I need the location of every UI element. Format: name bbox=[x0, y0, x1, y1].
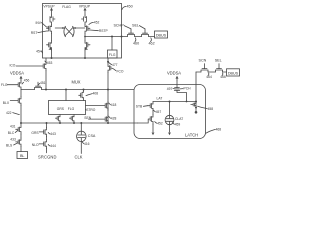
transistor N2b bbox=[85, 41, 90, 50]
wire box U2 top tap bbox=[65, 89, 67, 101]
svg-text:FLG: FLG bbox=[68, 107, 75, 111]
node BL terminal box bbox=[17, 147, 28, 159]
label 464 leader bbox=[206, 73, 212, 79]
svg-text:STB: STB bbox=[136, 104, 143, 108]
wire blc-bls bbox=[20, 134, 22, 138]
label 466 leader bbox=[220, 73, 226, 79]
label 456 leader bbox=[22, 79, 29, 84]
svg-text:ICO: ICO bbox=[10, 64, 16, 68]
wire right branch mid bbox=[84, 34, 86, 41]
label INV input bbox=[36, 21, 49, 27]
label LATCH bbox=[185, 133, 198, 138]
ground arrow left bbox=[152, 124, 155, 135]
svg-text:FLG: FLG bbox=[1, 83, 8, 87]
transistor SEL right bbox=[216, 64, 223, 72]
label 422 leader bbox=[6, 111, 19, 115]
wire ICO to mux bus bbox=[45, 71, 47, 91]
svg-text:CSA: CSA bbox=[88, 134, 96, 138]
node FLG terminal box bbox=[108, 37, 118, 59]
svg-text:SCN: SCN bbox=[199, 58, 207, 62]
svg-text:INV: INV bbox=[36, 21, 42, 25]
transistor U2a bbox=[56, 115, 62, 125]
label CSA bbox=[88, 134, 96, 138]
label BLS gate bbox=[6, 143, 18, 148]
transistor BLC bbox=[16, 123, 21, 134]
label 431 leader bbox=[10, 125, 16, 129]
svg-text:459: 459 bbox=[175, 122, 181, 126]
svg-text:464: 464 bbox=[206, 75, 212, 79]
transistor SCN bbox=[201, 64, 208, 72]
svg-text:RSTP: RSTP bbox=[99, 29, 109, 33]
wire mux bus bbox=[21, 89, 134, 91]
label 408 leader bbox=[86, 91, 98, 95]
wire stb to n2 bbox=[152, 111, 154, 115]
svg-text:PCH: PCH bbox=[184, 87, 192, 91]
svg-text:VPSUP: VPSUP bbox=[79, 4, 91, 8]
wire sen bus bbox=[21, 122, 138, 124]
label 454 leader bbox=[36, 50, 42, 54]
wire grs-nlo bbox=[46, 137, 48, 140]
transistor N1a bbox=[47, 24, 52, 33]
svg-text:SEL: SEL bbox=[215, 58, 222, 62]
svg-text:CLK: CLK bbox=[75, 154, 83, 159]
label 468 leader bbox=[206, 128, 221, 134]
transistor SEL top bbox=[142, 29, 149, 37]
svg-text:456: 456 bbox=[24, 79, 30, 83]
label 444 leader bbox=[48, 144, 56, 148]
svg-text:BLS: BLS bbox=[6, 143, 13, 147]
label 457 leader bbox=[154, 110, 162, 114]
wire left branch mid bbox=[51, 34, 53, 41]
wire DBUS top bbox=[122, 36, 155, 38]
svg-text:SEN: SEN bbox=[84, 116, 91, 120]
label STB bbox=[136, 104, 148, 108]
svg-text:462: 462 bbox=[149, 42, 155, 46]
wire LAT node bbox=[153, 101, 197, 103]
supply VPSUP left bbox=[43, 4, 55, 15]
label SCHP bbox=[113, 23, 131, 29]
transistor U2b bbox=[70, 115, 76, 125]
transistor 451 on bus bbox=[35, 82, 42, 89]
mux select box U2 bbox=[49, 101, 86, 115]
latch box U3 bbox=[134, 85, 206, 139]
svg-text:GRS: GRS bbox=[57, 107, 65, 111]
svg-text:LATCH: LATCH bbox=[185, 133, 198, 138]
label SEL top bbox=[132, 23, 145, 29]
svg-text:444: 444 bbox=[50, 144, 56, 148]
cross coupling bowtie bbox=[55, 26, 85, 36]
label 462 leader bbox=[149, 38, 155, 46]
label CLAT bbox=[175, 117, 183, 121]
label SRCGND bbox=[38, 154, 57, 159]
transistor BLX bbox=[10, 97, 21, 106]
wire flg box drop bbox=[107, 58, 109, 64]
capacitor CLAT bbox=[165, 102, 174, 133]
transistor P2 bbox=[82, 15, 87, 24]
wire to srcgnd bbox=[46, 149, 48, 153]
svg-text:BLX: BLX bbox=[3, 101, 10, 105]
svg-text:452: 452 bbox=[94, 21, 100, 25]
svg-text:454: 454 bbox=[36, 50, 42, 54]
label CLK bbox=[75, 154, 83, 159]
svg-text:BLC: BLC bbox=[8, 131, 15, 135]
transistor N1b bbox=[47, 41, 52, 50]
svg-text:STRO: STRO bbox=[86, 108, 96, 112]
svg-text:443: 443 bbox=[50, 132, 56, 136]
label 450 box leader bbox=[122, 5, 133, 10]
label 477 leader bbox=[109, 62, 118, 67]
svg-text:416: 416 bbox=[84, 142, 90, 146]
label SEN bbox=[84, 116, 91, 120]
transistor NLO bbox=[39, 140, 47, 149]
svg-text:418: 418 bbox=[111, 103, 117, 107]
label BLX bbox=[3, 101, 10, 105]
transistor T7a bbox=[86, 102, 109, 111]
wire right branch to rail bbox=[84, 50, 86, 59]
svg-text:RST: RST bbox=[31, 31, 38, 35]
label 452 leader bbox=[89, 21, 100, 25]
label 451 leader bbox=[38, 81, 45, 85]
wire blx drop bbox=[20, 90, 22, 97]
svg-text:452: 452 bbox=[157, 121, 163, 125]
label FLG gate bbox=[1, 83, 8, 87]
label LAT bbox=[157, 97, 163, 101]
label FLAG bbox=[62, 5, 71, 9]
wire flag rail drop bbox=[45, 58, 47, 62]
transistor SCHP bbox=[128, 29, 135, 37]
label 433 leader bbox=[10, 138, 16, 142]
svg-text:428: 428 bbox=[111, 116, 117, 120]
label 460 leader bbox=[133, 38, 139, 46]
transistor latch nmos bbox=[138, 115, 154, 125]
label 459 leader bbox=[172, 122, 180, 126]
label GRS in box bbox=[57, 107, 65, 111]
label BLC gate bbox=[8, 130, 18, 135]
GRS column wire bbox=[46, 123, 48, 128]
svg-text:433: 433 bbox=[10, 138, 16, 142]
label SEL right bbox=[215, 58, 222, 62]
supply VDDSA left bbox=[10, 71, 24, 81]
label MUX bbox=[71, 80, 80, 85]
transistor P1 bbox=[50, 15, 55, 24]
wire dbus drop bbox=[195, 72, 198, 114]
node DBUS top box bbox=[155, 31, 168, 38]
transistor FLG pmos bbox=[7, 81, 21, 90]
label ICO bbox=[10, 64, 16, 68]
transistor latch right bbox=[191, 102, 196, 108]
svg-text:GRS: GRS bbox=[31, 131, 39, 135]
svg-text:431: 431 bbox=[10, 125, 16, 129]
transistor BLS bbox=[16, 138, 21, 147]
label NLO gate bbox=[32, 143, 39, 147]
label RSTP bbox=[88, 29, 108, 33]
svg-text:451: 451 bbox=[40, 81, 46, 85]
transistor ICO bbox=[16, 62, 46, 71]
svg-text:468: 468 bbox=[216, 128, 222, 132]
label 443 leader bbox=[48, 132, 56, 136]
svg-text:BL: BL bbox=[20, 154, 25, 158]
node DBUS right box bbox=[227, 69, 240, 76]
supply VDDSA right bbox=[167, 71, 181, 81]
svg-text:SEL: SEL bbox=[132, 23, 139, 27]
label PCH bbox=[180, 87, 191, 91]
wire blx to sen bus bbox=[20, 106, 22, 124]
label 418 leader bbox=[109, 103, 117, 107]
svg-text:453: 453 bbox=[47, 61, 53, 65]
svg-text:CLAT: CLAT bbox=[175, 117, 183, 121]
label 497 leader bbox=[167, 87, 175, 91]
svg-text:FCO: FCO bbox=[117, 69, 124, 73]
svg-text:VDDSA: VDDSA bbox=[10, 71, 24, 76]
label GRS gate bbox=[31, 131, 39, 135]
label RST input bbox=[31, 31, 49, 35]
svg-text:FLAG: FLAG bbox=[62, 5, 71, 9]
svg-text:457: 457 bbox=[156, 110, 162, 114]
transistor T7b bbox=[89, 115, 109, 123]
svg-text:408: 408 bbox=[93, 91, 99, 95]
label STRO bbox=[86, 108, 96, 112]
wire flag output bbox=[84, 36, 122, 38]
ground arrow right bbox=[168, 133, 171, 136]
svg-text:NLO: NLO bbox=[32, 143, 39, 147]
label 416 leader bbox=[82, 142, 89, 146]
svg-text:MUX: MUX bbox=[71, 80, 80, 85]
wire scn sel bus bbox=[196, 71, 227, 73]
svg-text:450: 450 bbox=[127, 5, 133, 9]
transistor STRO bbox=[79, 89, 85, 101]
label FLG in box bbox=[68, 107, 75, 111]
svg-text:VDDSA: VDDSA bbox=[167, 71, 181, 76]
transistor N2a bbox=[85, 24, 90, 33]
label 452 leader latch bbox=[155, 121, 163, 125]
svg-text:SCHP: SCHP bbox=[113, 23, 124, 27]
svg-text:497: 497 bbox=[167, 87, 173, 91]
svg-text:422: 422 bbox=[6, 111, 12, 115]
supply VPSUP right bbox=[79, 4, 91, 15]
transistor GRS bbox=[39, 128, 46, 137]
svg-text:SRCGND: SRCGND bbox=[38, 154, 57, 159]
label FCO bbox=[117, 69, 124, 73]
svg-text:FLG: FLG bbox=[109, 53, 116, 57]
label SCN bbox=[199, 58, 207, 62]
transistor PCH bbox=[174, 81, 186, 102]
wire left branch to rail bbox=[51, 50, 53, 59]
label 428 leader bbox=[109, 116, 117, 120]
svg-text:VPSUP: VPSUP bbox=[43, 4, 55, 8]
svg-text:477: 477 bbox=[112, 63, 118, 67]
svg-text:458: 458 bbox=[208, 107, 214, 111]
label 458 leader bbox=[198, 106, 214, 111]
svg-text:LAT: LAT bbox=[157, 97, 163, 101]
svg-text:DBUS: DBUS bbox=[156, 33, 167, 37]
transistor STB bbox=[148, 102, 153, 111]
flag latch box U1 bbox=[43, 4, 122, 59]
capacitor CSA bbox=[77, 123, 87, 154]
wire fco to buses bbox=[107, 73, 109, 124]
svg-text:466: 466 bbox=[220, 75, 226, 79]
transistor FCO bbox=[108, 64, 116, 73]
svg-text:460: 460 bbox=[133, 42, 139, 46]
label 453 leader bbox=[45, 61, 53, 65]
svg-text:DBUS: DBUS bbox=[228, 71, 239, 75]
